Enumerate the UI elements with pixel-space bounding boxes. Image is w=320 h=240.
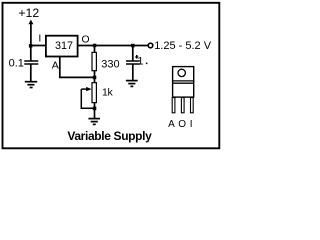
svg-text:1k: 1k [102,87,114,99]
wire: output node to resistor R1 [94,46,96,53]
ground (left) [25,82,37,88]
junction dot output node [93,44,97,48]
junction dot cap node [131,44,135,48]
wire: adjust pin down and right [60,57,95,77]
svg-text:1: 1 [137,56,143,68]
svg-text:A: A [52,60,59,72]
TO-220 legs [172,98,193,113]
border frame (decorative, part of drawing) [3,3,220,149]
ground (middle) [88,119,100,125]
ground (right) [126,81,138,87]
wire: R1 to adjust node and pot [94,71,96,83]
wire: junction to 317 input [30,45,47,47]
svg-text:+12: +12 [18,6,39,20]
potentiometer R2 1k [81,83,113,109]
power arrow symbol [28,20,33,46]
svg-text:1.25 - 5.2 V: 1.25 - 5.2 V [154,40,212,52]
svg-text:330: 330 [101,58,119,70]
resistor R1 330 [92,52,120,70]
svg-text:O: O [178,119,186,130]
capacitor C2 1. [126,56,147,68]
svg-text:Variable Supply: Variable Supply [67,129,152,143]
TO-220 package outline [173,67,194,98]
capacitor C1 0.1 [9,58,39,70]
wire: junction down to capacitor C1 [30,46,32,61]
svg-text:317: 317 [55,40,73,52]
wire: 317 output to terminal [78,45,149,47]
wire: node down to capacitor C2 [132,46,134,61]
svg-text:I: I [190,119,193,130]
junction dot input node [29,44,33,48]
svg-text:I: I [38,33,41,45]
junction dot pot bottom [93,107,97,111]
wire: C2 to ground [132,65,134,81]
capacitor C2 polarity + [135,55,138,58]
svg-text:0.1: 0.1 [9,58,24,70]
wire: pot bottom to ground [94,103,96,119]
regulator U1 317 box [46,36,78,57]
svg-text:O: O [82,35,90,46]
svg-text:A: A [168,119,175,130]
junction dot adjust node [93,76,97,80]
wire: C1 to ground [30,65,32,82]
output terminal open circle [148,43,153,48]
